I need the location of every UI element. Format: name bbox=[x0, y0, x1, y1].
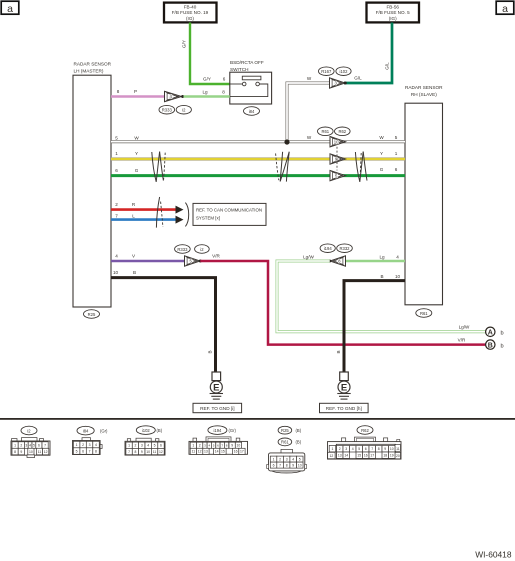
svg-text:FB-56: FB-56 bbox=[386, 4, 399, 9]
svg-text:G: G bbox=[380, 167, 384, 172]
svg-text:B: B bbox=[133, 270, 136, 275]
svg-text:10: 10 bbox=[395, 274, 401, 279]
svg-text:(Gr): (Gr) bbox=[100, 428, 108, 433]
connector i2 pin layout bbox=[11, 426, 50, 457]
svg-text:(B): (B) bbox=[157, 428, 163, 433]
svg-text:2: 2 bbox=[82, 443, 84, 447]
svg-text:16: 16 bbox=[234, 450, 238, 454]
svg-text:17: 17 bbox=[370, 454, 374, 458]
svg-text:R25: R25 bbox=[281, 428, 289, 433]
svg-text:14: 14 bbox=[215, 450, 219, 454]
wire V/R from joint to terminal B bbox=[200, 253, 485, 344]
joint connector R167/i102 pin 3 on W to G/L bbox=[319, 67, 352, 88]
svg-text:7: 7 bbox=[128, 450, 130, 454]
svg-text:4: 4 bbox=[29, 443, 31, 447]
svg-text:G/L: G/L bbox=[384, 62, 389, 70]
svg-text:11: 11 bbox=[153, 450, 157, 454]
separator line above connector strip bbox=[0, 418, 515, 420]
svg-text:10: 10 bbox=[334, 139, 339, 144]
svg-text:b: b bbox=[501, 330, 504, 336]
svg-text:12: 12 bbox=[44, 450, 48, 454]
svg-text:B: B bbox=[336, 350, 341, 353]
joint connector R333/i2 pin 5 on V wire bbox=[175, 245, 210, 267]
svg-text:6: 6 bbox=[273, 463, 275, 467]
svg-text:5: 5 bbox=[115, 135, 118, 140]
arrow to CAN on L wire bbox=[176, 216, 184, 224]
svg-text:5: 5 bbox=[358, 447, 360, 451]
joint connector R333/i2 pin 4 on P wire bbox=[159, 91, 191, 114]
wire W from LH sensor pin 5 to RH sensor pin 5 bbox=[111, 135, 405, 142]
svg-text:R167: R167 bbox=[321, 69, 332, 74]
svg-text:9: 9 bbox=[141, 450, 143, 454]
svg-text:R62: R62 bbox=[338, 129, 346, 134]
wire L (CAN) from LH sensor pin 7 bbox=[111, 213, 176, 219]
svg-text:5: 5 bbox=[395, 135, 398, 140]
svg-text:4: 4 bbox=[147, 444, 149, 448]
wire G/Y from FB-40 to switch pin 6 bbox=[182, 23, 230, 85]
node a marker top-left bbox=[1, 1, 19, 15]
connector oval i84 under switch bbox=[244, 107, 260, 116]
svg-text:F/B FUSE NO. 19: F/B FUSE NO. 19 bbox=[172, 10, 209, 15]
BSD/RCTA OFF switch bbox=[230, 60, 272, 104]
svg-text:i194: i194 bbox=[324, 246, 333, 251]
svg-text:V: V bbox=[132, 253, 136, 258]
svg-text:4: 4 bbox=[95, 443, 97, 447]
svg-text:6: 6 bbox=[223, 77, 226, 82]
svg-text:9: 9 bbox=[292, 463, 294, 467]
svg-text:8: 8 bbox=[95, 449, 97, 453]
svg-text:3: 3 bbox=[25, 443, 27, 447]
svg-text:7: 7 bbox=[115, 213, 118, 218]
twisted pair symbol on R/L bbox=[156, 197, 163, 228]
svg-text:8: 8 bbox=[378, 447, 380, 451]
wire R (CAN) from LH sensor pin 2 bbox=[111, 202, 176, 210]
svg-text:B: B bbox=[488, 342, 493, 349]
svg-text:V/R: V/R bbox=[458, 338, 466, 343]
svg-text:8: 8 bbox=[222, 90, 225, 95]
bracket arc to CAN ref bbox=[185, 203, 188, 227]
svg-text:F/B FUSE NO. 5: F/B FUSE NO. 5 bbox=[376, 10, 410, 15]
svg-text:(B): (B) bbox=[296, 440, 302, 445]
wire Lg from RH sensor pin 4 to joint i194/R332 bbox=[346, 254, 406, 261]
connector i102 pin layout bbox=[125, 426, 165, 455]
svg-text:E: E bbox=[213, 382, 219, 393]
ground E (left) bbox=[210, 372, 223, 399]
svg-text:i84: i84 bbox=[83, 428, 89, 433]
svg-text:9: 9 bbox=[20, 450, 22, 454]
svg-text:4: 4 bbox=[396, 254, 399, 259]
connector oval R25 under LH sensor bbox=[84, 310, 100, 319]
svg-text:REF. TO CAN COMMUNICATION: REF. TO CAN COMMUNICATION bbox=[196, 207, 262, 212]
dashed link between R61/R62 joints bbox=[336, 147, 338, 171]
svg-text:R25: R25 bbox=[88, 312, 96, 317]
connector i84 pin layout bbox=[73, 426, 109, 454]
ref box GND [i] (left) bbox=[193, 403, 242, 412]
connector R25/R61 pin layout bbox=[267, 426, 307, 473]
svg-text:12: 12 bbox=[330, 454, 334, 458]
svg-text:G/Y: G/Y bbox=[203, 77, 211, 82]
svg-text:a: a bbox=[502, 3, 508, 15]
wire B from LH sensor pin 10 down to ground bbox=[111, 270, 216, 372]
svg-text:1: 1 bbox=[14, 443, 16, 447]
svg-text:8: 8 bbox=[14, 450, 16, 454]
svg-text:16: 16 bbox=[364, 454, 368, 458]
svg-text:L: L bbox=[132, 213, 135, 218]
svg-text:13: 13 bbox=[338, 454, 342, 458]
joint connector i194/R332 pin 8 on Lg wire bbox=[320, 244, 352, 266]
svg-text:10: 10 bbox=[390, 447, 394, 451]
svg-text:REF. TO GND [h]: REF. TO GND [h] bbox=[326, 406, 362, 411]
svg-text:G/L: G/L bbox=[354, 76, 362, 81]
svg-text:W: W bbox=[307, 135, 312, 140]
svg-text:W: W bbox=[134, 135, 139, 140]
svg-text:i84: i84 bbox=[249, 109, 255, 114]
svg-text:4: 4 bbox=[292, 457, 294, 461]
svg-text:9: 9 bbox=[231, 444, 233, 448]
svg-text:Lg/W: Lg/W bbox=[303, 254, 314, 259]
svg-text:4: 4 bbox=[115, 253, 118, 258]
svg-text:6: 6 bbox=[395, 167, 398, 172]
svg-text:R: R bbox=[132, 202, 136, 207]
svg-text:19: 19 bbox=[390, 454, 394, 458]
svg-text:10: 10 bbox=[237, 444, 241, 448]
svg-text:5: 5 bbox=[154, 444, 156, 448]
svg-text:(Gr): (Gr) bbox=[229, 428, 237, 433]
svg-text:V/R: V/R bbox=[212, 253, 220, 258]
svg-text:10: 10 bbox=[29, 450, 33, 454]
svg-text:6: 6 bbox=[82, 449, 84, 453]
svg-text:5: 5 bbox=[299, 457, 301, 461]
fuse FB-56 F/B FUSE NO. 5 (IG) bbox=[367, 3, 420, 23]
svg-text:12: 12 bbox=[198, 450, 202, 454]
svg-text:11: 11 bbox=[38, 450, 42, 454]
joint R61/R62 pin 9 on Y wire bbox=[330, 154, 346, 164]
junction node on W wire bbox=[284, 139, 289, 144]
svg-text:6: 6 bbox=[115, 168, 118, 173]
svg-text:4: 4 bbox=[352, 447, 354, 451]
wire V from LH sensor pin 4 to joint R333/i2 bbox=[111, 253, 185, 261]
wire B from RH sensor pin 10 down to ground bbox=[336, 274, 405, 372]
svg-text:WI-60418: WI-60418 bbox=[475, 550, 512, 560]
svg-text:2: 2 bbox=[339, 447, 341, 451]
svg-text:17: 17 bbox=[240, 450, 244, 454]
svg-text:REF. TO GND [i]: REF. TO GND [i] bbox=[200, 406, 234, 411]
svg-text:15: 15 bbox=[357, 454, 361, 458]
svg-text:R333: R333 bbox=[162, 108, 173, 113]
terminal A bbox=[486, 327, 504, 336]
svg-text:W: W bbox=[379, 135, 384, 140]
svg-text:a: a bbox=[7, 3, 13, 15]
svg-text:1: 1 bbox=[115, 151, 118, 156]
twisted pair symbol on Y/G left bbox=[152, 152, 165, 182]
svg-text:1: 1 bbox=[273, 457, 275, 461]
ref box GND [h] (right) bbox=[320, 403, 369, 412]
joint R61/R62 pin 10 on W wire bbox=[330, 137, 346, 147]
svg-text:P: P bbox=[134, 89, 137, 94]
wire Lg from joint to switch pin 8 bbox=[184, 90, 230, 97]
svg-text:Lg/W: Lg/W bbox=[459, 325, 470, 330]
svg-text:E: E bbox=[341, 382, 347, 393]
svg-text:3: 3 bbox=[141, 444, 143, 448]
svg-text:2: 2 bbox=[20, 443, 22, 447]
svg-text:1: 1 bbox=[395, 151, 398, 156]
svg-text:3: 3 bbox=[89, 443, 91, 447]
svg-text:R333: R333 bbox=[177, 247, 188, 252]
svg-text:G: G bbox=[135, 168, 139, 173]
svg-text:G/Y: G/Y bbox=[182, 40, 187, 48]
svg-text:i194: i194 bbox=[213, 428, 222, 433]
svg-text:R61: R61 bbox=[281, 440, 289, 445]
svg-text:7: 7 bbox=[89, 449, 91, 453]
svg-text:8: 8 bbox=[117, 89, 120, 94]
svg-text:SYSTEM [x]: SYSTEM [x] bbox=[196, 215, 220, 220]
svg-text:A: A bbox=[488, 329, 493, 336]
svg-text:20: 20 bbox=[396, 454, 400, 458]
svg-text:RADAR SENSOR: RADAR SENSOR bbox=[405, 85, 443, 90]
svg-text:3: 3 bbox=[345, 447, 347, 451]
svg-text:9: 9 bbox=[384, 447, 386, 451]
svg-text:1: 1 bbox=[332, 447, 334, 451]
ground E (right) bbox=[337, 372, 350, 399]
svg-text:6: 6 bbox=[160, 444, 162, 448]
svg-text:18: 18 bbox=[383, 454, 387, 458]
svg-text:3: 3 bbox=[286, 457, 288, 461]
svg-text:B: B bbox=[208, 350, 213, 353]
svg-text:2: 2 bbox=[135, 444, 137, 448]
svg-text:2: 2 bbox=[115, 202, 118, 207]
svg-text:14: 14 bbox=[344, 454, 348, 458]
svg-text:13: 13 bbox=[204, 450, 208, 454]
svg-text:1: 1 bbox=[76, 443, 78, 447]
svg-text:5: 5 bbox=[76, 449, 78, 453]
svg-text:(IG): (IG) bbox=[186, 16, 194, 21]
svg-text:15: 15 bbox=[221, 450, 225, 454]
svg-text:RH (SLAVE): RH (SLAVE) bbox=[411, 92, 437, 97]
svg-text:(IG): (IG) bbox=[389, 16, 397, 21]
svg-text:1: 1 bbox=[192, 444, 194, 448]
svg-text:LH (MASTER): LH (MASTER) bbox=[74, 68, 104, 73]
svg-text:10: 10 bbox=[146, 450, 150, 454]
joint connector R61/R62 ovals bbox=[318, 127, 351, 136]
svg-text:R61: R61 bbox=[420, 311, 428, 316]
svg-text:7: 7 bbox=[44, 443, 46, 447]
svg-text:11: 11 bbox=[192, 450, 196, 454]
svg-text:2: 2 bbox=[199, 444, 201, 448]
connector i194 pin layout bbox=[189, 426, 248, 455]
wire P from LH sensor pin 8 to joint R333/i2 bbox=[111, 89, 165, 97]
svg-text:1: 1 bbox=[128, 444, 130, 448]
svg-text:RADAR SENSOR: RADAR SENSOR bbox=[74, 61, 112, 66]
node a marker top-right bbox=[496, 1, 514, 15]
arrow to CAN on R wire bbox=[176, 206, 184, 214]
svg-text:7: 7 bbox=[279, 463, 281, 467]
svg-text:SWITCH: SWITCH bbox=[230, 67, 249, 72]
radar sensor RH (SLAVE) bbox=[405, 85, 443, 305]
wire Y from LH sensor pin 1 to RH sensor pin 1 bbox=[111, 151, 405, 159]
svg-text:B: B bbox=[380, 274, 383, 279]
svg-text:8: 8 bbox=[286, 463, 288, 467]
svg-text:2: 2 bbox=[279, 457, 281, 461]
ref box CAN communication system bbox=[193, 203, 266, 225]
svg-text:Lg: Lg bbox=[379, 254, 385, 259]
twisted pair symbol on Y/G right bbox=[355, 152, 367, 182]
svg-text:i102: i102 bbox=[340, 69, 349, 74]
wire Lg/W from joint to terminal A bbox=[277, 254, 485, 331]
svg-text:6: 6 bbox=[365, 447, 367, 451]
svg-text:BSD/RCTA OFF: BSD/RCTA OFF bbox=[230, 60, 264, 65]
wire W branch up from junction to joint R167/i102 bbox=[287, 76, 330, 142]
svg-text:FB-40: FB-40 bbox=[184, 4, 197, 9]
svg-text:R332: R332 bbox=[339, 246, 350, 251]
svg-text:12: 12 bbox=[159, 450, 163, 454]
svg-text:6: 6 bbox=[38, 443, 40, 447]
svg-text:Y: Y bbox=[135, 151, 138, 156]
svg-text:Lg: Lg bbox=[202, 90, 208, 95]
svg-text:10: 10 bbox=[113, 270, 119, 275]
svg-text:11: 11 bbox=[396, 447, 400, 451]
connector oval R61 under RH sensor bbox=[416, 309, 432, 318]
svg-text:i102: i102 bbox=[142, 428, 151, 433]
svg-text:10: 10 bbox=[298, 463, 302, 467]
svg-text:7: 7 bbox=[371, 447, 373, 451]
svg-text:(B): (B) bbox=[296, 428, 302, 433]
svg-text:R62: R62 bbox=[361, 428, 369, 433]
svg-text:Y: Y bbox=[380, 151, 383, 156]
connector R62 pin layout bbox=[328, 426, 402, 459]
svg-text:R61: R61 bbox=[321, 129, 329, 134]
svg-text:W: W bbox=[307, 76, 312, 81]
joint R61/R62 pin 5 on G wire bbox=[330, 170, 346, 180]
twisted pair symbol on Y/G middle bbox=[276, 152, 290, 182]
wire G/L from FB-56 down-left to joint R167/i102 bbox=[344, 23, 392, 84]
radar sensor LH (MASTER) bbox=[73, 61, 112, 307]
svg-text:b: b bbox=[501, 343, 504, 349]
svg-text:8: 8 bbox=[135, 450, 137, 454]
fuse FB-40 F/B FUSE NO. 19 (IG) bbox=[164, 3, 217, 23]
svg-text:5: 5 bbox=[33, 443, 35, 447]
terminal B bbox=[486, 340, 504, 350]
wire G from LH sensor pin 6 to RH sensor pin 6 bbox=[111, 167, 405, 176]
